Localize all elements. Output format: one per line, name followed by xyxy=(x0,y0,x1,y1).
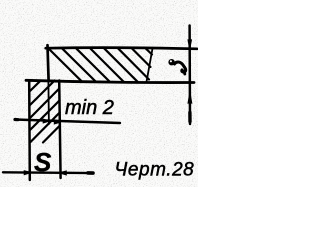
svg-text:min 2: min 2 xyxy=(65,97,114,119)
svg-text:S: S xyxy=(34,147,52,177)
svg-text:Черт.28: Черт.28 xyxy=(115,160,195,181)
